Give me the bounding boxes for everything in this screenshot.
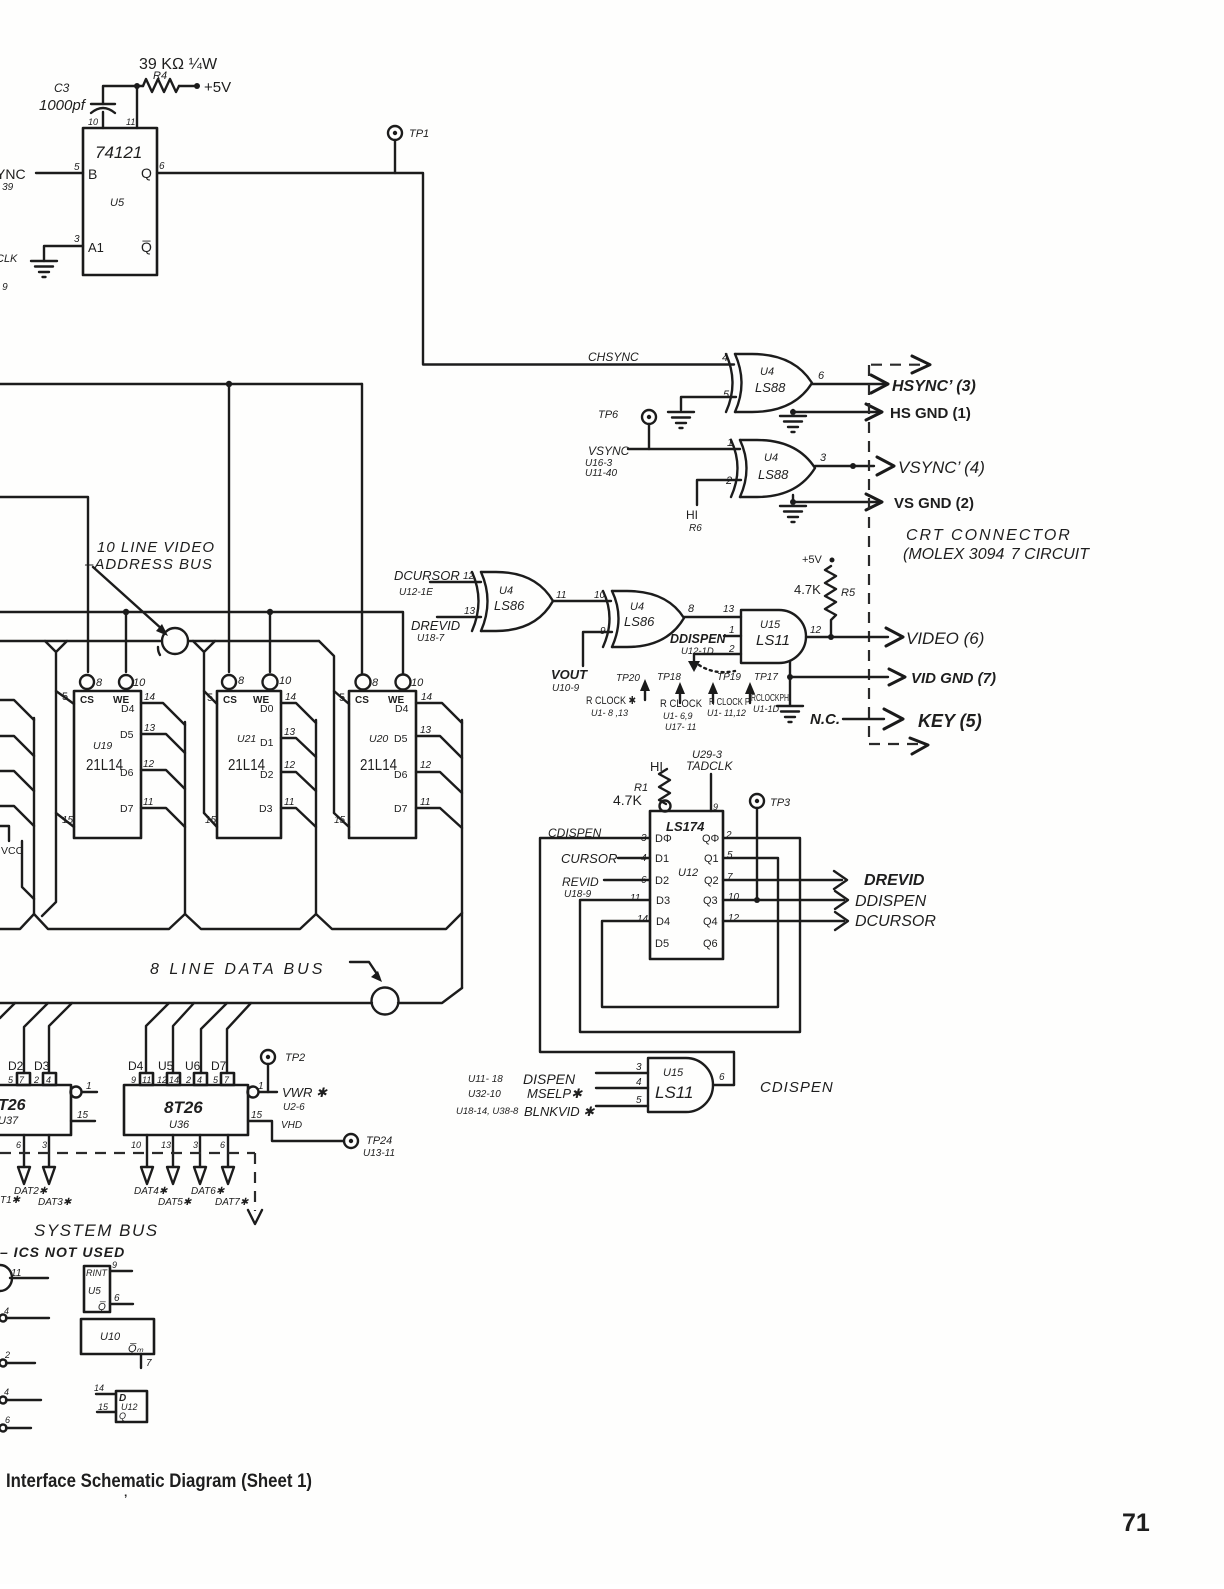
svg-text:D7: D7 bbox=[211, 1059, 227, 1073]
test point TP24 bbox=[344, 1134, 395, 1159]
+5V for R5 bbox=[802, 554, 835, 566]
wire cap bottom to pin 10 bbox=[102, 112, 104, 128]
svg-text:10: 10 bbox=[411, 677, 424, 689]
wire data bus trunk top bbox=[0, 913, 462, 929]
svg-text:DCURSOR: DCURSOR bbox=[855, 913, 936, 930]
svg-text:U1- 6,9: U1- 6,9 bbox=[663, 711, 693, 721]
svg-text:LS86: LS86 bbox=[624, 614, 655, 629]
input bubble pin 4 (page edge) bbox=[0, 1306, 49, 1322]
wire down to ground from VID GND node bbox=[789, 677, 791, 705]
wire U37 output DAT2 bbox=[16, 1135, 24, 1167]
ground at gate input 5 bbox=[668, 412, 694, 428]
label ICS NOT USED bbox=[0, 1244, 125, 1260]
svg-text:DISPEN: DISPEN bbox=[523, 1071, 576, 1087]
pin bubble U37 pin 1 bbox=[71, 1081, 98, 1098]
svg-text:DAT3✱: DAT3✱ bbox=[38, 1197, 72, 1208]
svg-text:R5: R5 bbox=[841, 587, 856, 599]
svg-text:7: 7 bbox=[146, 1358, 152, 1369]
arrow DAT4 bbox=[141, 1167, 153, 1184]
node CURSOR bbox=[561, 851, 617, 866]
svg-text:VIDEO (6): VIDEO (6) bbox=[906, 629, 984, 648]
wire VSYNC to gate input 1 bbox=[628, 437, 740, 449]
svg-text:2: 2 bbox=[33, 1075, 39, 1085]
label DREVID bbox=[864, 872, 925, 889]
svg-text:U17- 11: U17- 11 bbox=[665, 722, 696, 732]
svg-text:KEY (5): KEY (5) bbox=[918, 711, 982, 731]
svg-text:8 LINE DATA BUS: 8 LINE DATA BUS bbox=[150, 961, 325, 978]
arrow VIDEO bbox=[886, 628, 903, 646]
svg-text:U2-6: U2-6 bbox=[283, 1102, 305, 1113]
svg-text:Q̅: Q̅ bbox=[141, 239, 152, 255]
svg-text:6: 6 bbox=[5, 1415, 10, 1425]
svg-text:D4: D4 bbox=[395, 703, 409, 715]
label VID GND (7) bbox=[911, 670, 996, 687]
svg-text:5: 5 bbox=[723, 389, 730, 401]
svg-text:D6: D6 bbox=[394, 769, 408, 781]
arrow VID GND bbox=[889, 669, 905, 685]
node DCURSOR bbox=[394, 568, 460, 598]
svg-text:Q3: Q3 bbox=[703, 895, 718, 907]
svg-text:TP17: TP17 bbox=[754, 672, 778, 683]
svg-text:3: 3 bbox=[193, 1140, 198, 1150]
svg-text:12: 12 bbox=[157, 1075, 167, 1085]
svg-text:TP19: TP19 bbox=[717, 672, 741, 683]
wire U21 D1 bbox=[281, 727, 316, 757]
HSYNC input label (cut at page edge) bbox=[0, 166, 26, 193]
svg-text:LS174: LS174 bbox=[666, 819, 705, 834]
svg-text:7: 7 bbox=[19, 1075, 25, 1085]
ground at A1 bbox=[31, 261, 57, 277]
svg-text:Q6: Q6 bbox=[703, 938, 718, 950]
label VIDEO (6) bbox=[906, 629, 984, 648]
svg-text:BLNKVID ✱: BLNKVID ✱ bbox=[524, 1104, 595, 1119]
svg-text:U15: U15 bbox=[760, 619, 781, 631]
svg-text:YNC: YNC bbox=[0, 166, 26, 182]
label HS GND (1) bbox=[890, 405, 971, 422]
label D2 D3 bbox=[8, 1059, 50, 1073]
svg-text:5: 5 bbox=[207, 692, 213, 704]
IC U36 8T26 bbox=[124, 1085, 248, 1135]
leader arrow to data bus symbol bbox=[350, 962, 382, 982]
ground below gate U4b bbox=[780, 506, 806, 522]
wire DCURSOR to gate input 12 bbox=[430, 571, 481, 582]
svg-text:13: 13 bbox=[464, 606, 476, 617]
svg-text:D0: D0 bbox=[260, 703, 274, 715]
pin bubble U20 CS bbox=[356, 675, 380, 690]
wire U19 pin 15 stub bbox=[56, 813, 74, 827]
svg-text:15: 15 bbox=[334, 815, 346, 826]
wire HSYNC' output bbox=[812, 370, 884, 384]
svg-text:6: 6 bbox=[114, 1293, 120, 1304]
svg-text:DAT6✱: DAT6✱ bbox=[191, 1186, 225, 1197]
svg-text:3: 3 bbox=[74, 234, 80, 245]
svg-text:D5: D5 bbox=[394, 733, 408, 745]
svg-text:TP18: TP18 bbox=[657, 672, 681, 683]
wire gate input 5 from ground bbox=[681, 397, 736, 410]
svg-text:DDISPEN: DDISPEN bbox=[855, 893, 927, 910]
wire U20 pin 15 stub bbox=[334, 813, 349, 827]
svg-text:14: 14 bbox=[637, 914, 649, 925]
svg-text:CRT CONNECTOR: CRT CONNECTOR bbox=[906, 527, 1072, 544]
svg-text:U5: U5 bbox=[110, 197, 125, 209]
wire VOUT to gate input 9 bbox=[583, 632, 612, 666]
svg-text:LS88: LS88 bbox=[758, 467, 789, 482]
svg-text:CLK: CLK bbox=[0, 253, 18, 265]
svg-text:11: 11 bbox=[420, 797, 430, 808]
svg-text:13: 13 bbox=[144, 723, 156, 734]
svg-text:MSELP✱: MSELP✱ bbox=[527, 1086, 583, 1101]
svg-text:8T26: 8T26 bbox=[164, 1098, 203, 1117]
node VWR* bbox=[282, 1085, 328, 1113]
svg-text:U4: U4 bbox=[760, 366, 774, 378]
svg-text:9: 9 bbox=[131, 1075, 136, 1085]
test point TP6 bbox=[598, 409, 656, 449]
wire U20 data bus vertical bbox=[461, 720, 463, 988]
svg-text:TP20: TP20 bbox=[616, 673, 640, 684]
svg-text:10: 10 bbox=[133, 677, 146, 689]
svg-text:VWR ✱: VWR ✱ bbox=[282, 1085, 328, 1100]
svg-text:D3: D3 bbox=[34, 1059, 50, 1073]
wire CS rail to U19 bbox=[0, 497, 88, 672]
svg-text:U1-1D: U1-1D bbox=[753, 704, 780, 714]
svg-text:A1: A1 bbox=[88, 240, 104, 255]
svg-text:B: B bbox=[88, 166, 97, 182]
wire address bus trunk bbox=[0, 640, 319, 642]
svg-text:12: 12 bbox=[420, 760, 432, 771]
svg-text:VSYNC: VSYNC bbox=[588, 444, 630, 458]
svg-text:71: 71 bbox=[1122, 1509, 1150, 1537]
wire Q1 feedback loop to D4 bbox=[602, 858, 778, 1007]
svg-text:’: ’ bbox=[124, 1492, 127, 1506]
svg-text:LS86: LS86 bbox=[494, 598, 525, 613]
node REVID bbox=[562, 875, 599, 900]
wire DDISPEN to input 1 bbox=[724, 625, 741, 636]
wire U19 D7 bbox=[141, 797, 185, 827]
node MSELP* bbox=[468, 1086, 583, 1101]
svg-text:HS GND (1): HS GND (1) bbox=[890, 405, 971, 422]
svg-text:QΦ: QΦ bbox=[702, 833, 720, 845]
svg-text:4.7K: 4.7K bbox=[794, 582, 821, 597]
svg-text:Interface Schematic Diagram (S: Interface Schematic Diagram (Sheet 1) bbox=[6, 1471, 312, 1492]
pin bubble U21 WE bbox=[263, 675, 293, 690]
wire gate input 2 from HI bbox=[697, 480, 741, 505]
xor-gate U4b LS88 bbox=[725, 440, 815, 497]
wire U21 D3 bbox=[281, 797, 316, 827]
svg-text:CS: CS bbox=[355, 695, 369, 706]
resistor R4 bbox=[139, 56, 218, 92]
svg-text:7: 7 bbox=[727, 872, 733, 883]
wire VID GND from gate bottom bbox=[787, 661, 888, 680]
svg-text:DAT4✱: DAT4✱ bbox=[134, 1186, 168, 1197]
arrow DAT5 bbox=[167, 1167, 179, 1184]
svg-text:7: 7 bbox=[224, 1075, 230, 1085]
arrow DAT3 bbox=[43, 1167, 55, 1184]
svg-text:D7: D7 bbox=[394, 803, 408, 815]
node BLNKVID* bbox=[456, 1104, 595, 1119]
svg-text:11: 11 bbox=[556, 590, 566, 601]
svg-text:C3: C3 bbox=[54, 81, 70, 95]
svg-text:5: 5 bbox=[74, 162, 80, 173]
svg-text:D5: D5 bbox=[120, 729, 134, 741]
system bus dashed line bbox=[0, 1153, 262, 1224]
svg-text:D3: D3 bbox=[656, 895, 670, 907]
svg-text:VCC: VCC bbox=[1, 845, 24, 857]
and-gate U15 LS11 bbox=[741, 610, 806, 663]
arrow HS GND bbox=[866, 404, 882, 420]
svg-text:CDISPEN: CDISPEN bbox=[760, 1079, 834, 1096]
svg-text:15: 15 bbox=[251, 1110, 263, 1121]
svg-text:14: 14 bbox=[94, 1383, 104, 1393]
svg-text:U13-11: U13-11 bbox=[363, 1148, 395, 1159]
svg-text:6: 6 bbox=[818, 370, 825, 382]
svg-text:U20: U20 bbox=[369, 733, 388, 745]
svg-text:13: 13 bbox=[284, 727, 296, 738]
wire U20 D4 to data bus bbox=[416, 692, 462, 723]
svg-text:TADCLK: TADCLK bbox=[686, 759, 733, 773]
svg-text:TP6: TP6 bbox=[598, 409, 619, 421]
resistor R5 bbox=[794, 566, 856, 637]
svg-text:VID GND (7): VID GND (7) bbox=[911, 670, 996, 687]
svg-text:D3: D3 bbox=[259, 803, 273, 815]
svg-text:4: 4 bbox=[46, 1075, 51, 1085]
svg-text:U15: U15 bbox=[663, 1067, 684, 1079]
svg-text:15: 15 bbox=[205, 815, 217, 826]
svg-text:10: 10 bbox=[279, 675, 292, 687]
wire WE drop to U19 bbox=[125, 612, 127, 672]
test point TP2 bbox=[261, 1050, 305, 1092]
wire data slash D3 bbox=[49, 1003, 72, 1073]
capacitor C3 bbox=[91, 104, 115, 113]
node VSYNC labels bbox=[585, 444, 630, 479]
wire HSYNC to pin B bbox=[36, 162, 83, 173]
svg-text:Q4: Q4 bbox=[703, 916, 718, 928]
IC fragment U12 D/Q flip-flop bbox=[94, 1383, 147, 1422]
wire WE rail bbox=[0, 609, 403, 674]
input bubble pin 6 (page edge) bbox=[0, 1415, 31, 1432]
wire VSYNC' output bbox=[815, 452, 874, 469]
pin box U36 D7 bbox=[213, 1073, 234, 1085]
label D4 U5 U6 D7 bbox=[128, 1059, 227, 1073]
IC U12 LS174 bbox=[630, 811, 740, 959]
wire chip-select top rail bbox=[0, 381, 362, 387]
svg-text:11: 11 bbox=[284, 797, 294, 808]
svg-text:TP3: TP3 bbox=[770, 797, 791, 809]
arrow VS GND bbox=[866, 494, 882, 510]
svg-text:TP2: TP2 bbox=[285, 1052, 305, 1064]
node DREVID bbox=[411, 618, 460, 644]
svg-text:U11- 18: U11- 18 bbox=[468, 1074, 503, 1085]
svg-text:SYSTEM BUS: SYSTEM BUS bbox=[34, 1221, 159, 1240]
svg-text:10: 10 bbox=[88, 117, 98, 127]
node CHSYNC bbox=[588, 350, 639, 364]
VCC box fragment bbox=[0, 826, 34, 899]
junction pin-11 rail bbox=[134, 83, 140, 128]
svg-text:D2: D2 bbox=[8, 1059, 24, 1073]
arrow DDISPEN bbox=[835, 891, 848, 909]
wire DREVID to gate input 13 bbox=[437, 606, 481, 617]
svg-text:VS GND (2): VS GND (2) bbox=[894, 495, 974, 512]
test point arrow TP19 bbox=[707, 672, 750, 718]
svg-text:1000pf: 1000pf bbox=[39, 97, 87, 114]
pin bubble U12 pin 1 bbox=[660, 801, 671, 812]
svg-text:12: 12 bbox=[143, 759, 155, 770]
svg-text:1: 1 bbox=[258, 1081, 264, 1092]
svg-text:D2: D2 bbox=[260, 769, 274, 781]
svg-text:U36: U36 bbox=[169, 1119, 190, 1131]
svg-text:D2: D2 bbox=[655, 875, 669, 887]
label VS GND (2) bbox=[894, 495, 974, 512]
svg-text:2: 2 bbox=[728, 644, 735, 655]
svg-text:6: 6 bbox=[719, 1072, 725, 1083]
wire DDISPEN output bbox=[723, 899, 844, 901]
wire data slash D2 bbox=[24, 1003, 48, 1073]
test point arrow TP18 bbox=[657, 672, 703, 732]
svg-text:TP24: TP24 bbox=[366, 1135, 392, 1147]
svg-text:9: 9 bbox=[112, 1260, 117, 1270]
svg-text:U21: U21 bbox=[237, 733, 256, 745]
test point arrow TP20 bbox=[586, 673, 650, 718]
svg-text:2: 2 bbox=[4, 1350, 10, 1360]
wire KEY bbox=[843, 718, 884, 720]
svg-text:U5: U5 bbox=[88, 1286, 101, 1297]
svg-text:N.C.: N.C. bbox=[810, 711, 840, 728]
wire U21 pin 5 stub bbox=[204, 691, 217, 704]
test point TP1 bbox=[388, 126, 429, 173]
wire Q0 feedback loop to D3 bbox=[580, 838, 800, 1032]
node VOUT bbox=[551, 667, 588, 694]
svg-text:U4: U4 bbox=[499, 585, 513, 597]
wire U19 D6 bbox=[141, 759, 185, 789]
svg-text:U10-9: U10-9 bbox=[552, 683, 580, 694]
svg-text:4: 4 bbox=[197, 1075, 202, 1085]
svg-text:U12: U12 bbox=[678, 867, 698, 879]
wire U20 D6 bbox=[416, 760, 462, 793]
svg-text:6: 6 bbox=[159, 161, 165, 172]
svg-text:+5V: +5V bbox=[802, 554, 823, 566]
pin bubble U21 CS bbox=[222, 675, 245, 689]
label 8 LINE DATA BUS bbox=[150, 961, 325, 978]
wire MSELP* to pin 4 bbox=[596, 1077, 648, 1088]
label VSYNC' (4) bbox=[898, 458, 985, 477]
wire address drop U19 bbox=[42, 641, 67, 916]
label 10 LINE VIDEO ADDRESS BUS bbox=[84, 539, 215, 573]
svg-text:13: 13 bbox=[161, 1140, 171, 1150]
wire data slash to U37 (edge) bbox=[0, 1003, 15, 1018]
svg-text:14: 14 bbox=[169, 1075, 179, 1085]
svg-text:DAT5✱: DAT5✱ bbox=[158, 1197, 192, 1208]
ground below LS11 bbox=[777, 706, 803, 722]
svg-text:2: 2 bbox=[725, 830, 732, 841]
svg-text:5: 5 bbox=[62, 691, 68, 703]
svg-text:3: 3 bbox=[636, 1062, 642, 1073]
left-edge chip data stubs bbox=[0, 700, 34, 826]
svg-text:5: 5 bbox=[727, 850, 733, 861]
wire A1 input bbox=[44, 234, 83, 261]
wire WE drop to U21 bbox=[269, 612, 271, 672]
svg-text:11: 11 bbox=[630, 893, 640, 904]
arrow DAT6 bbox=[194, 1167, 206, 1184]
svg-text:U37: U37 bbox=[0, 1115, 19, 1127]
wire input 2 stub bbox=[694, 644, 741, 662]
svg-text:R4: R4 bbox=[153, 70, 167, 82]
label KEY (5) bbox=[918, 711, 982, 731]
wire gate output pin 6 bbox=[713, 1072, 734, 1085]
arrow DREVID bbox=[834, 871, 847, 889]
CLK label (cut at edge) bbox=[0, 253, 18, 293]
svg-text:8: 8 bbox=[96, 677, 103, 689]
svg-text:U4: U4 bbox=[630, 601, 644, 613]
label HSYNC' (3) bbox=[892, 378, 976, 395]
svg-text:U18-7: U18-7 bbox=[417, 633, 445, 644]
svg-text:10 LINE VIDEO: 10 LINE VIDEO bbox=[97, 539, 215, 556]
node address bus symbol bbox=[158, 628, 188, 655]
svg-text:Q1: Q1 bbox=[704, 853, 719, 865]
node TADCLK bbox=[686, 749, 733, 773]
caption Interface Schematic Diagram (Sheet 1) bbox=[6, 1471, 312, 1506]
svg-text:14: 14 bbox=[421, 692, 433, 703]
svg-text:Q: Q bbox=[141, 165, 152, 181]
arrow DAT2 bbox=[18, 1167, 30, 1184]
wire U19 pin 5 stub bbox=[56, 691, 74, 704]
svg-text:1: 1 bbox=[729, 625, 735, 636]
pin box U36 D4 bbox=[131, 1073, 153, 1085]
wire U19 D4 to data bus bbox=[141, 692, 185, 725]
CRT connector dashed boundary bbox=[869, 356, 930, 754]
svg-text:R6: R6 bbox=[689, 523, 702, 534]
wire CDISPEN feedback loop from LS11 output bbox=[540, 838, 734, 1085]
pin box U37 D3 bbox=[33, 1073, 56, 1085]
pin bubble U19 WE bbox=[119, 675, 146, 689]
svg-text:TP1: TP1 bbox=[409, 128, 429, 140]
svg-text:U19: U19 bbox=[93, 740, 112, 752]
arrow DAT7 bbox=[222, 1167, 234, 1184]
svg-text:5: 5 bbox=[636, 1095, 642, 1106]
svg-text:U18-14, U38-8: U18-14, U38-8 bbox=[456, 1106, 519, 1117]
svg-text:Q: Q bbox=[119, 1411, 126, 1421]
svg-text:13: 13 bbox=[420, 725, 432, 736]
svg-text:U18-9: U18-9 bbox=[564, 889, 592, 900]
svg-text:14: 14 bbox=[144, 692, 156, 703]
wire gate U4c output to U4d input 10 bbox=[553, 590, 611, 601]
svg-text:REVID: REVID bbox=[562, 875, 599, 889]
svg-text:4: 4 bbox=[636, 1077, 642, 1088]
arrow HSYNC' bbox=[871, 375, 888, 393]
svg-text:DREVID: DREVID bbox=[864, 872, 925, 889]
svg-text:VHD: VHD bbox=[281, 1120, 302, 1131]
svg-text:13: 13 bbox=[723, 604, 735, 615]
svg-text:(MOLEX 3094 7 CIRCUIT: (MOLEX 3094 7 CIRCUIT bbox=[903, 546, 1090, 563]
svg-text:– ICS NOT USED: – ICS NOT USED bbox=[0, 1244, 125, 1260]
wire cap top to +5V rail corner bbox=[103, 86, 143, 104]
wire U19 D5 bbox=[141, 723, 185, 753]
IC fragment U10 bbox=[81, 1319, 154, 1369]
svg-text:5: 5 bbox=[213, 1075, 219, 1085]
wire U20 D7 bbox=[416, 797, 462, 828]
svg-text:VOUT: VOUT bbox=[551, 667, 588, 682]
label CDISPEN output bbox=[760, 1079, 834, 1096]
pin box U36 D5 bbox=[157, 1073, 180, 1085]
wire DCURSOR output bbox=[723, 920, 844, 922]
svg-text:D4: D4 bbox=[656, 916, 670, 928]
svg-text:LS11: LS11 bbox=[655, 1083, 693, 1102]
IC fragment RINT U5 bbox=[84, 1260, 133, 1313]
svg-text:CS: CS bbox=[80, 695, 94, 706]
svg-text:HSYNC’ (3): HSYNC’ (3) bbox=[892, 378, 976, 395]
svg-text:D4: D4 bbox=[128, 1059, 144, 1073]
pin bubble U36 pin 1 / VWR bbox=[248, 1081, 278, 1098]
wire DISPEN to pin 3 bbox=[596, 1062, 648, 1073]
test point TP3 bbox=[750, 794, 791, 903]
